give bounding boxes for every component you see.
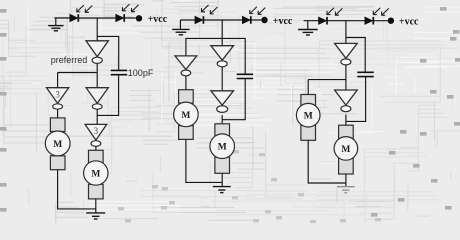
light arrows D6 xyxy=(373,8,388,15)
wire node B tee xyxy=(58,72,98,74)
photodiode D1 xyxy=(70,14,78,22)
label 3 on U4 xyxy=(94,126,99,136)
inverter U6 xyxy=(175,56,197,76)
inverter U4 xyxy=(85,124,107,146)
+vcc terminal 2 xyxy=(261,16,293,27)
svg-text:+vcc: +vcc xyxy=(399,17,419,28)
inverter U9 xyxy=(335,90,358,112)
+vcc terminal 1 xyxy=(136,14,168,25)
ground GND3 xyxy=(172,29,189,34)
inverter U8 xyxy=(335,43,358,65)
motor M5 xyxy=(296,95,320,141)
ground GND2 xyxy=(86,213,105,219)
inverter U7 xyxy=(211,91,234,113)
light arrows D1 xyxy=(77,5,93,12)
photodiode D4 xyxy=(242,16,250,24)
wire node C down xyxy=(221,20,223,46)
wire node C branch xyxy=(186,38,245,74)
wire U1 out xyxy=(96,64,98,73)
ground GND3 stub xyxy=(179,20,181,29)
svg-text:M: M xyxy=(53,140,62,150)
wire U4 out xyxy=(95,146,97,150)
svg-text:+vcc: +vcc xyxy=(148,14,168,25)
light arrows D2 xyxy=(123,4,139,12)
light arrows D4 xyxy=(250,7,265,15)
wire U8 out xyxy=(345,65,347,90)
wire node B mid down xyxy=(96,73,98,88)
svg-text:M: M xyxy=(218,143,227,153)
wire node D down xyxy=(345,21,347,44)
motor M1 xyxy=(45,118,70,170)
wire C3 bottom link xyxy=(346,77,366,122)
svg-text:M: M xyxy=(304,112,313,122)
ground GND5 stub xyxy=(307,21,309,30)
photodiode D3 xyxy=(195,16,203,24)
wire M4 to ground xyxy=(221,173,223,186)
wire U3 out xyxy=(96,109,98,124)
ground GND4 xyxy=(213,187,231,193)
wire top rail circuit 1 xyxy=(54,17,135,19)
wire U7 out xyxy=(221,115,223,124)
wire node D to C3 top xyxy=(346,38,365,73)
svg-text:preferred: preferred xyxy=(51,55,88,65)
label preferred xyxy=(51,55,88,65)
wire M2 to ground xyxy=(95,199,97,213)
photodiode D2 xyxy=(116,14,124,22)
ground GND1 stub xyxy=(55,18,57,25)
photodiode D5 xyxy=(319,17,327,25)
capacitor C2 xyxy=(237,74,253,78)
svg-text:3: 3 xyxy=(94,126,99,136)
wire node E tee xyxy=(308,79,346,81)
motor M3 xyxy=(174,90,199,140)
inverter U2 xyxy=(47,88,69,110)
inverter U3 xyxy=(86,88,108,110)
capacitor C1 xyxy=(111,70,127,74)
wire node A to C1 top xyxy=(97,36,119,70)
wire M6 to ground xyxy=(345,174,347,186)
ground GND6 xyxy=(337,187,355,193)
ground GND1 xyxy=(48,26,63,31)
wire M1 to ground xyxy=(58,170,96,209)
wire node B left down xyxy=(57,73,59,88)
wire U9 out xyxy=(345,115,347,126)
wire M5 to ground xyxy=(308,140,346,183)
ground GND5 xyxy=(298,30,318,36)
svg-text:M: M xyxy=(341,145,350,155)
inverter U1 xyxy=(86,41,108,64)
wire node E left down xyxy=(307,80,309,95)
svg-text:3: 3 xyxy=(55,89,60,99)
wire node A down xyxy=(96,18,98,41)
capacitor C3 xyxy=(357,72,373,76)
motor M4 xyxy=(210,124,235,174)
wire C2 bottom link xyxy=(222,79,245,120)
svg-text:100pF: 100pF xyxy=(128,68,154,78)
wire M3 to ground xyxy=(186,139,222,182)
wire U5 to U7 xyxy=(221,67,223,91)
light arrows D5 xyxy=(327,8,342,15)
motor M6 xyxy=(334,125,358,174)
label 100pF xyxy=(128,68,154,78)
+vcc terminal 3 xyxy=(388,17,419,28)
svg-text:+vcc: +vcc xyxy=(273,16,293,27)
wire U6 out xyxy=(185,76,187,89)
wire C1 bottom link xyxy=(97,75,118,116)
label 3 on U2 xyxy=(55,89,60,99)
wire top rail circuit 3 xyxy=(304,20,388,22)
svg-text:M: M xyxy=(181,111,190,121)
light arrows D3 xyxy=(202,5,218,14)
wire U2 out xyxy=(57,109,59,118)
wire top rail circuit 2 xyxy=(180,19,261,21)
motor M2 xyxy=(84,150,108,199)
inverter U5 xyxy=(211,46,234,67)
svg-text:M: M xyxy=(91,169,100,179)
photodiode D6 xyxy=(365,17,373,25)
